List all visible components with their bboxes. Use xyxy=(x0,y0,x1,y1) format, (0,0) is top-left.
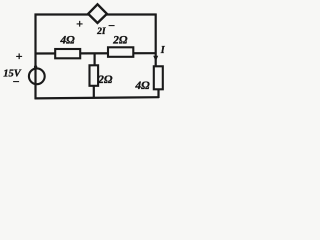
label - of dependent source xyxy=(108,19,115,33)
wire top (node from source top to right branch) xyxy=(35,13,157,15)
label + of dependent source xyxy=(76,17,83,31)
label 15V xyxy=(3,69,22,80)
svg-text:+: + xyxy=(16,49,23,63)
wire middle row xyxy=(35,52,156,54)
wire right vertical top xyxy=(155,14,157,68)
svg-text:4Ω: 4Ω xyxy=(59,34,75,46)
svg-text:2I: 2I xyxy=(96,27,106,37)
wire middle branch stub xyxy=(93,54,96,99)
voltage source V1 15V (circle) xyxy=(29,68,45,84)
label + of source V1 xyxy=(16,49,23,63)
wire right vertical bottom stub xyxy=(157,89,159,98)
wire bottom xyxy=(35,97,160,98)
resistor R4 4ohm vertical (box) xyxy=(154,66,163,89)
label 2I xyxy=(96,27,106,37)
svg-text:2Ω: 2Ω xyxy=(97,74,113,86)
label - of source V1 xyxy=(12,75,19,89)
label 2ohm of R3 xyxy=(97,74,113,86)
svg-text:+: + xyxy=(76,17,83,31)
current arrow I (down) xyxy=(153,56,158,62)
resistor R3 2ohm vertical (box) xyxy=(90,65,99,86)
resistor R2 2ohm horizontal (box) xyxy=(108,47,133,57)
resistor R1 4ohm horizontal (box) xyxy=(55,49,80,58)
label 2ohm of R2 xyxy=(112,35,128,47)
svg-text:2Ω: 2Ω xyxy=(112,35,128,47)
svg-text:4Ω: 4Ω xyxy=(134,80,150,92)
junction blob at source top xyxy=(34,65,37,68)
label 4ohm of R1 xyxy=(59,34,75,46)
dependent source U1 2I (diamond) xyxy=(88,4,107,23)
label 4ohm of R4 xyxy=(134,80,150,92)
wire left vertical xyxy=(34,14,36,100)
svg-text:−: − xyxy=(12,75,19,89)
label I xyxy=(160,45,166,56)
svg-text:−: − xyxy=(108,19,115,33)
